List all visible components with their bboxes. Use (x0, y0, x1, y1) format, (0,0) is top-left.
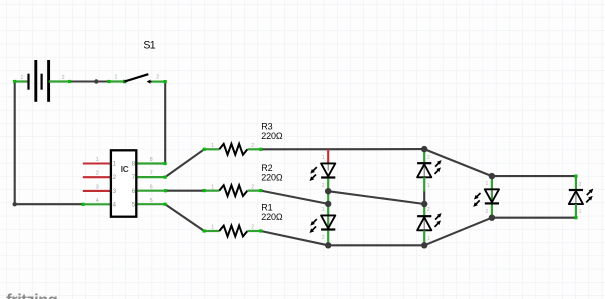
svg-text:5: 5 (132, 201, 136, 208)
resistor R3 (203, 122, 283, 155)
svg-text:220Ω: 220Ω (261, 131, 283, 141)
svg-text:1: 1 (211, 184, 214, 190)
svg-text:5: 5 (150, 198, 153, 204)
svg-text:S1: S1 (143, 40, 155, 52)
svg-text:1: 1 (427, 183, 430, 189)
svg-text:2: 2 (113, 174, 117, 181)
svg-text:2: 2 (62, 75, 65, 81)
wire switch to IC pin 8 (164, 82, 166, 164)
wire IC pin 7 to R3 (165, 149, 204, 177)
wire bottom rail A to B (328, 244, 424, 246)
wire battery+ to switch (70, 79, 109, 83)
svg-text:220Ω: 220Ω (261, 212, 283, 222)
svg-text:1: 1 (211, 225, 214, 231)
svg-text:2: 2 (96, 171, 99, 177)
wire IC pin 5 to R1 (165, 204, 204, 231)
wire node C bottom to LED D bottom (492, 217, 576, 219)
node C top junction (489, 173, 495, 179)
IC U1 (81, 150, 167, 216)
svg-text:1: 1 (322, 207, 325, 213)
resistor R2 (203, 163, 283, 196)
wire node C top to LED D top (492, 175, 576, 177)
wire node A1 cathode to node B mid (328, 191, 424, 204)
LED A1 (310, 155, 336, 191)
resistor R1 (203, 203, 283, 237)
node C bottom junction (489, 215, 495, 221)
node A bottom junction (325, 242, 331, 248)
LED C (473, 176, 499, 218)
wire node B1 top to node C top (424, 149, 492, 176)
wire battery- down and right to IC pin 4 (13, 82, 83, 207)
wire node B bottom to node C bottom (424, 218, 492, 246)
battery BT1 (13, 60, 71, 102)
svg-text:1: 1 (579, 209, 582, 215)
svg-text:8: 8 (150, 157, 153, 163)
svg-text:1: 1 (96, 157, 99, 163)
node A1 cathode junction (325, 188, 331, 194)
svg-text:4: 4 (113, 201, 117, 208)
svg-text:7: 7 (132, 174, 136, 181)
node B1 top junction (421, 146, 427, 152)
svg-text:4: 4 (96, 198, 99, 204)
svg-text:2: 2 (156, 75, 159, 81)
LED B1 (417, 149, 442, 191)
svg-text:6: 6 (132, 188, 136, 195)
svg-text:2: 2 (251, 184, 254, 190)
svg-text:2: 2 (322, 235, 325, 241)
svg-text:1: 1 (115, 75, 118, 81)
switch S1 (107, 40, 166, 84)
wire R3 to node B1 top (261, 148, 424, 150)
svg-text:1: 1 (486, 181, 489, 187)
svg-text:fritzing: fritzing (6, 291, 57, 299)
svg-text:2: 2 (486, 209, 489, 215)
node A2 anode junction (325, 201, 331, 207)
wire gray link B mid (423, 192, 425, 205)
svg-text:8: 8 (132, 161, 136, 168)
wire R2 to node A mid (261, 191, 328, 204)
svg-text:2: 2 (251, 143, 254, 149)
svg-text:1: 1 (427, 236, 430, 242)
LED B2 (417, 204, 442, 245)
svg-text:1: 1 (21, 75, 24, 81)
svg-text:3: 3 (96, 184, 99, 190)
svg-text:2: 2 (427, 155, 430, 161)
node B bottom junction (421, 242, 427, 248)
wire IC pin 6 to R2 (166, 190, 205, 192)
svg-text:IC: IC (121, 165, 129, 174)
LED A2 (310, 204, 336, 245)
svg-text:2: 2 (251, 225, 254, 231)
node B2 anode junction (421, 201, 427, 207)
svg-text:1: 1 (113, 161, 117, 168)
wire green link A mid (327, 191, 329, 204)
svg-text:6: 6 (150, 184, 153, 190)
svg-text:2: 2 (579, 182, 582, 188)
svg-text:220Ω: 220Ω (261, 172, 283, 182)
svg-text:2: 2 (322, 183, 325, 189)
svg-text:1: 1 (322, 155, 325, 161)
LED D (569, 175, 594, 220)
svg-text:3: 3 (113, 188, 117, 195)
svg-text:2: 2 (427, 207, 430, 213)
svg-text:1: 1 (211, 143, 214, 149)
wire R1 to node A bottom (261, 231, 328, 245)
ratsnest red wire R3 line to LED A1 anode (327, 149, 329, 163)
svg-text:7: 7 (150, 171, 153, 177)
